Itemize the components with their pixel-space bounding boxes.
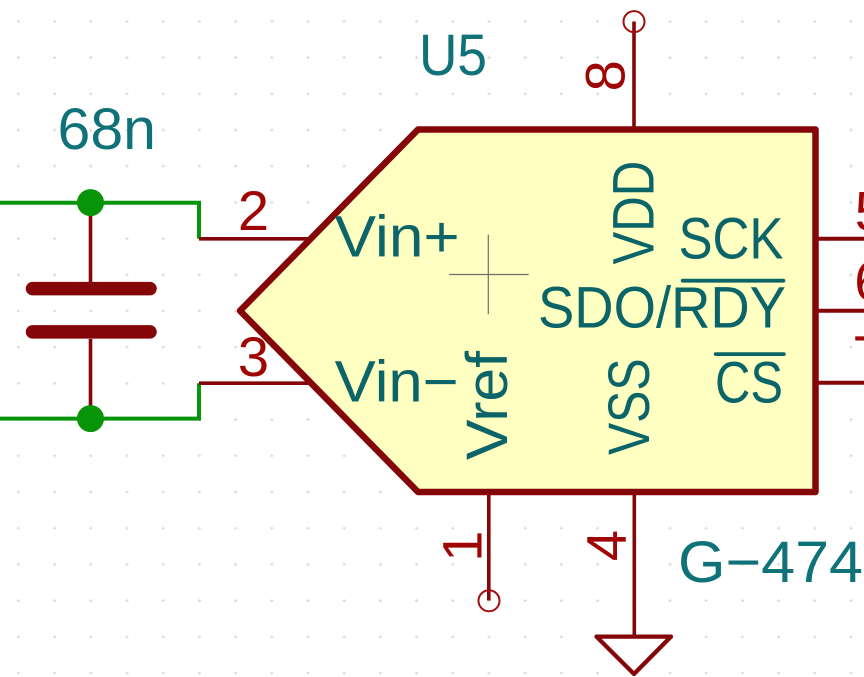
svg-text:5: 5 [855,180,864,243]
pin 6 line [816,309,864,313]
svg-text:Vin−: Vin− [335,350,459,415]
svg-text:VDD: VDD [602,161,667,265]
pin 7 line [816,381,864,385]
wire upper (Vin+ net) [0,203,199,239]
unconnected pin circle (pin 8) [624,11,645,32]
svg-text:68n: 68n [58,97,157,162]
svg-text:6: 6 [854,250,864,313]
unconnected pin circle (pin 1) [479,590,500,611]
svg-text:Vref: Vref [455,350,520,460]
svg-text:U5: U5 [419,23,487,88]
capacitor C1 lead bottom [89,339,93,419]
ground symbol [597,637,672,674]
ground lead [632,600,636,637]
overline over CS [716,352,784,356]
svg-text:G−474: G−474 [678,530,863,595]
svg-text:SCK: SCK [679,207,784,272]
pin 2 line [199,237,312,241]
anchor cross [449,235,529,315]
pin 1 line [487,492,491,601]
pin 3 line [199,381,312,385]
pin 4 line [632,492,636,600]
svg-text:1: 1 [431,531,494,562]
svg-text:VSS: VSS [597,359,662,456]
junction upper node [77,189,104,216]
junction lower node [77,405,104,432]
capacitor C1 plate top [33,282,151,296]
svg-text:Vin+: Vin+ [335,205,460,270]
svg-text:8: 8 [574,60,637,91]
svg-text:CS: CS [715,351,783,416]
svg-text:3: 3 [238,325,269,388]
svg-text:2: 2 [238,179,269,242]
pin 5 line [816,237,864,241]
svg-text:SDO/RDY: SDO/RDY [538,276,786,341]
pin 8 line [632,22,636,130]
wire lower (Vin- net) [0,383,199,418]
overline over RDY [683,279,784,283]
IC U5 body [240,130,816,493]
capacitor C1 lead top [89,203,93,282]
svg-text:4: 4 [575,530,638,561]
capacitor C1 plate bottom [33,325,151,339]
